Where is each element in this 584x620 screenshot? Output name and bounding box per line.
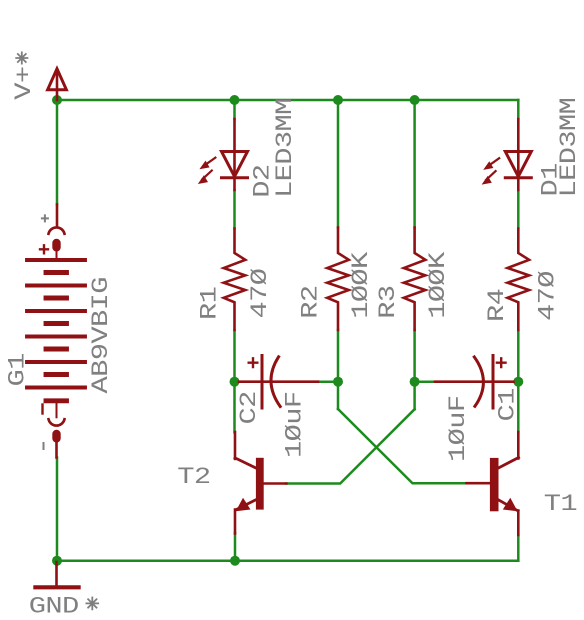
svg-text:AB9VBIG: AB9VBIG <box>88 277 115 393</box>
svg-text:1ØuF: 1ØuF <box>445 396 472 462</box>
svg-text:1ØØK: 1ØØK <box>425 251 452 319</box>
svg-text:LED3MM: LED3MM <box>556 98 583 198</box>
svg-text:GND: GND <box>29 593 79 620</box>
svg-text:C1: C1 <box>494 388 521 421</box>
svg-text:G1: G1 <box>4 353 31 386</box>
svg-text:1ØØK: 1ØØK <box>348 251 375 319</box>
svg-text:47Ø: 47Ø <box>246 269 273 319</box>
svg-text:R1: R1 <box>196 287 223 320</box>
svg-text:T1: T1 <box>544 491 577 518</box>
svg-text:T2: T2 <box>177 463 210 490</box>
svg-text:C2: C2 <box>236 391 263 424</box>
svg-text:V+: V+ <box>10 67 37 100</box>
svg-text:R3: R3 <box>375 286 402 319</box>
svg-text:R4: R4 <box>483 289 510 322</box>
svg-text:1ØuF: 1ØuF <box>281 392 308 458</box>
svg-text:47Ø: 47Ø <box>534 271 561 321</box>
svg-text:R2: R2 <box>297 286 324 319</box>
svg-text:LED3MM: LED3MM <box>272 98 299 198</box>
